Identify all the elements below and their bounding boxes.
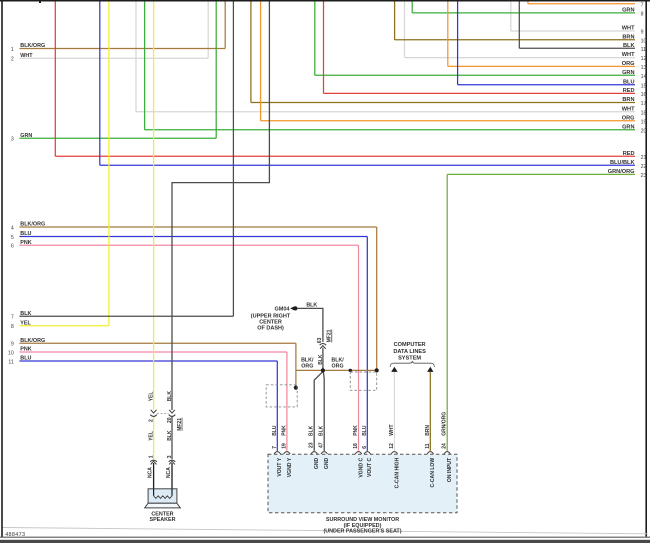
svg-text:PNK: PNK [353, 425, 359, 436]
svg-text:SYSTEM: SYSTEM [398, 356, 421, 362]
svg-text:BLK: BLK [319, 425, 325, 436]
svg-text:BRN: BRN [622, 97, 634, 103]
svg-text:7: 7 [11, 315, 14, 321]
svg-text:19: 19 [641, 119, 647, 125]
svg-text:63: 63 [317, 337, 323, 343]
svg-text:VOUT C: VOUT C [367, 457, 373, 477]
svg-text:C-CAN LOW: C-CAN LOW [430, 458, 436, 488]
svg-text:3: 3 [11, 137, 14, 143]
svg-text:9: 9 [641, 30, 644, 36]
svg-text:WHT: WHT [622, 106, 635, 112]
svg-text:23: 23 [309, 442, 315, 448]
svg-text:WHT: WHT [622, 52, 635, 58]
svg-text:11: 11 [425, 443, 431, 449]
svg-text:ORG: ORG [622, 115, 635, 121]
svg-text:NCA: NCA [148, 467, 154, 478]
svg-text:2: 2 [149, 419, 155, 422]
svg-text:ORG: ORG [622, 61, 635, 67]
svg-text:GRN/ORG: GRN/ORG [608, 169, 635, 175]
svg-text:GRN: GRN [622, 8, 634, 14]
svg-text:18: 18 [641, 110, 647, 116]
svg-text:BLK: BLK [20, 311, 31, 317]
svg-text:7: 7 [272, 446, 278, 449]
svg-text:BLU: BLU [362, 425, 368, 436]
svg-text:(UNDER PASSENGER'S SEAT): (UNDER PASSENGER'S SEAT) [323, 529, 401, 535]
svg-text:20: 20 [167, 417, 173, 423]
svg-text:RED: RED [623, 151, 635, 157]
svg-text:16: 16 [641, 92, 647, 98]
svg-text:BLK/ORG: BLK/ORG [20, 338, 45, 344]
svg-text:BLK/ORG: BLK/ORG [20, 43, 45, 49]
svg-text:COMPUTER: COMPUTER [394, 342, 426, 348]
svg-text:YEL: YEL [20, 320, 31, 326]
svg-text:SPEAKER: SPEAKER [149, 517, 175, 523]
svg-text:9: 9 [11, 342, 14, 348]
svg-text:GND: GND [324, 457, 330, 469]
svg-text:11: 11 [641, 47, 646, 53]
svg-text:BLK: BLK [318, 354, 324, 365]
svg-text:NCA: NCA [166, 467, 172, 478]
svg-text:ON INPUT: ON INPUT [447, 457, 453, 482]
svg-text:488473: 488473 [5, 532, 25, 538]
svg-text:GRN: GRN [20, 133, 32, 139]
svg-text:1: 1 [149, 455, 155, 458]
svg-text:YEL: YEL [149, 392, 155, 402]
svg-text:6: 6 [11, 244, 14, 250]
svg-text:C-CAN HIGH: C-CAN HIGH [394, 457, 400, 488]
svg-text:RED: RED [623, 88, 635, 94]
svg-text:12: 12 [641, 56, 647, 62]
svg-text:VGND C: VGND C [358, 457, 364, 477]
svg-text:BRN: BRN [622, 34, 634, 40]
svg-text:GRN: GRN [622, 70, 634, 76]
svg-text:22: 22 [641, 164, 647, 170]
svg-text:BLU/BLK: BLU/BLK [610, 160, 635, 166]
svg-text:21: 21 [641, 155, 647, 161]
svg-text:PNK: PNK [281, 425, 287, 436]
svg-text:11: 11 [8, 359, 13, 365]
svg-text:18: 18 [353, 443, 359, 449]
svg-text:CENTER: CENTER [259, 319, 282, 325]
svg-text:BRN: BRN [425, 425, 431, 436]
svg-text:GND: GND [314, 457, 320, 469]
svg-text:OF DASH): OF DASH) [257, 326, 284, 332]
svg-text:ORG: ORG [301, 363, 313, 369]
svg-text:BLK: BLK [167, 430, 173, 441]
svg-text:3: 3 [167, 455, 173, 458]
svg-text:15: 15 [641, 83, 647, 89]
svg-text:10: 10 [641, 38, 647, 44]
svg-text:WHT: WHT [622, 26, 635, 32]
svg-text:BLK: BLK [623, 43, 635, 49]
svg-text:24: 24 [442, 443, 448, 449]
svg-text:8: 8 [641, 12, 644, 18]
svg-text:BLK: BLK [309, 425, 315, 436]
svg-text:14: 14 [641, 74, 647, 80]
svg-text:4: 4 [11, 225, 14, 231]
svg-text:ORG: ORG [332, 363, 344, 369]
svg-text:1: 1 [11, 47, 14, 53]
svg-text:VOUT Y: VOUT Y [277, 457, 283, 476]
svg-text:DATA LINES: DATA LINES [393, 349, 426, 355]
svg-text:BLU: BLU [20, 356, 31, 362]
svg-text:8: 8 [11, 324, 14, 330]
svg-text:WHT: WHT [389, 424, 395, 435]
svg-text:2: 2 [11, 57, 14, 63]
svg-text:PNK: PNK [20, 347, 31, 353]
svg-text:BLU: BLU [623, 79, 635, 85]
svg-text:PNK: PNK [20, 240, 31, 246]
svg-text:12: 12 [389, 443, 395, 449]
svg-text:VGND Y: VGND Y [287, 457, 293, 477]
svg-text:BLK/ORG: BLK/ORG [20, 222, 45, 228]
svg-text:5: 5 [11, 235, 14, 241]
svg-text:19: 19 [281, 443, 287, 449]
svg-text:47: 47 [319, 442, 325, 448]
svg-text:BLK: BLK [167, 391, 173, 402]
svg-text:BLU: BLU [272, 425, 278, 436]
svg-text:GRN/ORG: GRN/ORG [442, 412, 448, 436]
svg-text:WHT: WHT [20, 53, 33, 59]
svg-text:17: 17 [641, 101, 647, 107]
svg-text:6: 6 [362, 446, 368, 449]
svg-text:20: 20 [641, 128, 647, 134]
svg-text:YEL: YEL [149, 431, 155, 441]
svg-text:7: 7 [641, 2, 644, 8]
svg-text:GM04: GM04 [275, 306, 291, 312]
svg-text:BLK: BLK [306, 302, 317, 308]
svg-text:13: 13 [641, 65, 647, 71]
svg-text:23: 23 [641, 173, 647, 179]
svg-text:BLU: BLU [20, 231, 31, 237]
svg-text:10: 10 [8, 350, 14, 356]
svg-text:GRN: GRN [622, 124, 634, 130]
